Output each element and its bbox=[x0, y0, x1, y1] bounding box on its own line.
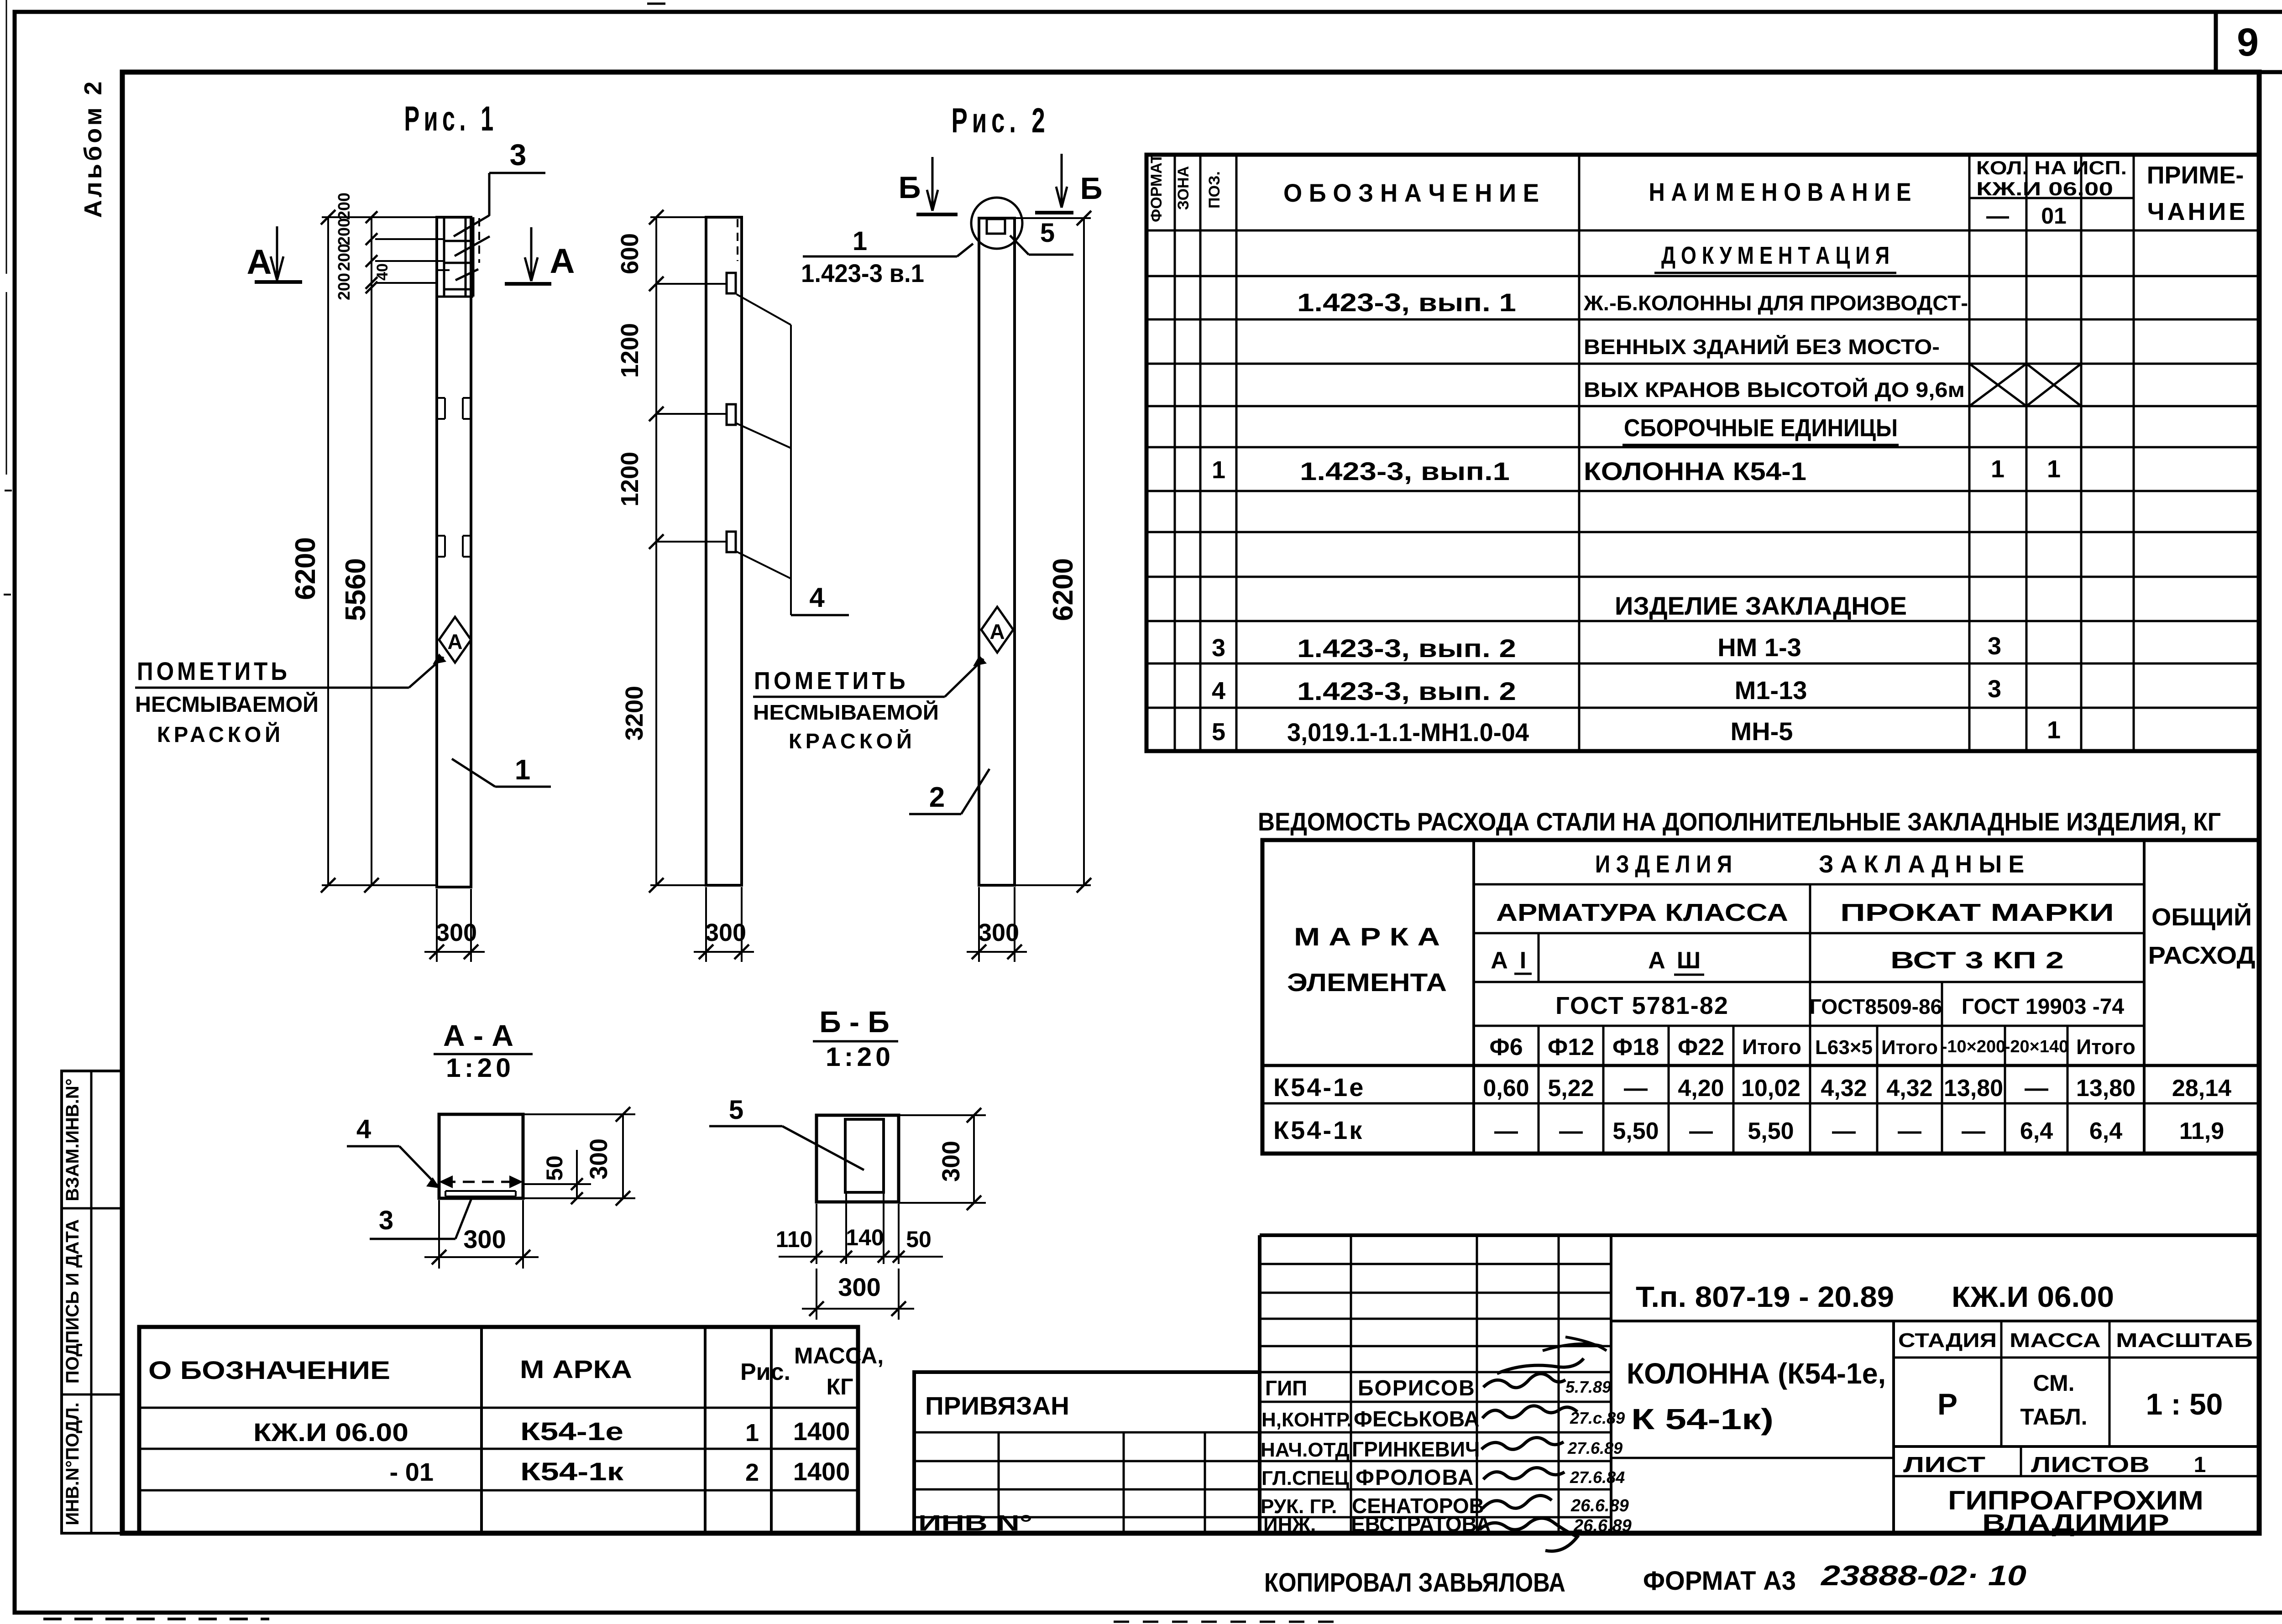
svg-text:5: 5 bbox=[1212, 718, 1225, 746]
svg-text:-20×140: -20×140 bbox=[2005, 1037, 2069, 1056]
spec crosses bbox=[1969, 364, 2026, 406]
recess marks upper bbox=[438, 397, 445, 399]
dim 6200 fig2 bbox=[1015, 217, 1091, 219]
svg-text:300: 300 bbox=[463, 1225, 506, 1253]
A-A dim 300 right bbox=[523, 1113, 635, 1115]
svg-text:1: 1 bbox=[515, 754, 530, 786]
svg-text:27.6.89: 27.6.89 bbox=[1567, 1439, 1623, 1457]
svg-text:М1-13: М1-13 bbox=[1735, 676, 1807, 705]
column K54-1k left body bbox=[706, 217, 742, 885]
svg-text:ВЕННЫХ ЗДАНИЙ БЕЗ МОСТО-: ВЕННЫХ ЗДАНИЙ БЕЗ МОСТО- bbox=[1584, 335, 1940, 359]
leader item 1 bbox=[452, 759, 495, 787]
svg-text:Б: Б bbox=[1080, 171, 1103, 206]
svg-text:Ф6: Ф6 bbox=[1489, 1034, 1523, 1060]
grade mark diamond fig1 bbox=[439, 617, 471, 663]
svg-text:М АРКА: М АРКА bbox=[520, 1355, 632, 1384]
svg-text:300: 300 bbox=[978, 919, 1019, 946]
dim chain fig2 left bbox=[650, 216, 706, 218]
svg-text:КОПИРОВАЛ ЗАВЬЯЛОВА: КОПИРОВАЛ ЗАВЬЯЛОВА bbox=[1264, 1568, 1565, 1598]
svg-text:ИНВ N°: ИНВ N° bbox=[918, 1511, 1032, 1535]
privyazan header bottom bbox=[914, 1431, 1260, 1434]
column K54-1k right body bbox=[979, 218, 1015, 885]
svg-text:Итого: Итого bbox=[1742, 1035, 1801, 1059]
embedded plates on column2 bbox=[727, 273, 736, 293]
svg-text:О Б О З Н А Ч Е Н И Е: О Б О З Н А Ч Е Н И Е bbox=[1283, 178, 1539, 207]
svg-text:6200: 6200 bbox=[290, 537, 321, 600]
steel header rows bbox=[1474, 883, 2144, 886]
svg-text:ЕВСТРАТОВА: ЕВСТРАТОВА bbox=[1351, 1512, 1491, 1536]
svg-text:К54-1е: К54-1е bbox=[520, 1417, 623, 1446]
svg-text:3: 3 bbox=[1212, 634, 1225, 662]
svg-text:ФРОЛОВА: ФРОЛОВА bbox=[1356, 1466, 1474, 1490]
svg-text:Н,КОНТР.: Н,КОНТР. bbox=[1261, 1409, 1352, 1431]
svg-text:И З Д Е Л И Я: И З Д Е Л И Я bbox=[1595, 851, 1732, 878]
svg-text:А: А bbox=[247, 243, 272, 282]
svg-text:ЛИСТОВ: ЛИСТОВ bbox=[2031, 1453, 2150, 1477]
strip divider column bbox=[90, 1071, 93, 1533]
svg-text:ГИП: ГИП bbox=[1265, 1376, 1307, 1400]
svg-text:А - А: А - А bbox=[443, 1018, 513, 1052]
svg-text:1400: 1400 bbox=[793, 1417, 850, 1446]
svg-text:1.423-3, вып.1: 1.423-3, вып.1 bbox=[1300, 457, 1510, 486]
svg-text:А: А bbox=[550, 242, 575, 281]
svg-text:6,4: 6,4 bbox=[2020, 1118, 2053, 1144]
A-A dim 300 bottom bbox=[438, 1200, 440, 1269]
svg-text:600: 600 bbox=[616, 233, 644, 274]
svg-text:6,4: 6,4 bbox=[2089, 1118, 2122, 1144]
svg-text:РАСХОД: РАСХОД bbox=[2148, 942, 2256, 969]
svg-text:ОБЩИЙ: ОБЩИЙ bbox=[2151, 903, 2252, 931]
svg-text:23888-02· 10: 23888-02· 10 bbox=[1821, 1560, 2026, 1592]
svg-text:L63×5: L63×5 bbox=[1815, 1036, 1873, 1059]
stadia grid bbox=[1892, 1321, 1895, 1533]
svg-text:—: — bbox=[1559, 1118, 1583, 1144]
svg-text:Рис. 2: Рис. 2 bbox=[952, 101, 1050, 140]
sig block row lines bbox=[1260, 1371, 1611, 1373]
svg-text:Т.п. 807-19 - 20.89: Т.п. 807-19 - 20.89 bbox=[1636, 1280, 1894, 1313]
svg-text:МАСШТАБ: МАСШТАБ bbox=[2116, 1329, 2253, 1352]
svg-text:ПОЗ.: ПОЗ. bbox=[1206, 171, 1223, 209]
svg-text:Д О К У М Е Н Т А Ц И Я: Д О К У М Е Н Т А Ц И Я bbox=[1661, 242, 1889, 269]
detail circle bbox=[971, 198, 1022, 249]
steel col AI split bbox=[1538, 933, 1540, 982]
svg-text:1:20: 1:20 bbox=[826, 1042, 894, 1072]
svg-text:9: 9 bbox=[2237, 21, 2259, 64]
svg-text:Ф18: Ф18 bbox=[1612, 1034, 1659, 1060]
svg-text:1.423-3 в.1: 1.423-3 в.1 bbox=[801, 259, 924, 287]
svg-text:Н А И М Е Н О В А Н И Е: Н А И М Е Н О В А Н И Е bbox=[1649, 178, 1911, 206]
svg-text:КЖ.И 06.00: КЖ.И 06.00 bbox=[1976, 178, 2113, 199]
strip divider 1 bbox=[62, 1207, 122, 1210]
svg-text:Ф12: Ф12 bbox=[1548, 1034, 1594, 1060]
svg-text:6200: 6200 bbox=[1047, 558, 1079, 621]
svg-text:4,32: 4,32 bbox=[1821, 1075, 1867, 1102]
svg-text:27.6.84: 27.6.84 bbox=[1570, 1468, 1625, 1487]
A-A dim 50 bbox=[523, 1183, 591, 1185]
svg-text:КЖ.И 06.00: КЖ.И 06.00 bbox=[253, 1418, 408, 1446]
svg-text:110: 110 bbox=[776, 1227, 813, 1252]
dim 300 fig1 bbox=[436, 889, 438, 962]
svg-text:—: — bbox=[1689, 1118, 1713, 1144]
strip divider 2 bbox=[62, 1394, 122, 1396]
svg-text:300: 300 bbox=[838, 1273, 880, 1301]
bottom table outer border bbox=[139, 1327, 858, 1533]
svg-text:К 54-1к): К 54-1к) bbox=[1631, 1403, 1774, 1436]
scan artifact left edge ticks bbox=[5, 490, 12, 491]
svg-text:1:20: 1:20 bbox=[446, 1053, 514, 1083]
svg-text:3: 3 bbox=[1988, 632, 2001, 660]
svg-text:Ж.-Б.КОЛОННЫ ДЛЯ ПРОИЗВОДСТ-: Ж.-Б.КОЛОННЫ ДЛЯ ПРОИЗВОДСТ- bbox=[1583, 291, 1968, 315]
scan artifact top edge dash bbox=[647, 3, 665, 5]
svg-text:50: 50 bbox=[906, 1227, 932, 1252]
svg-text:АРМАТУРА КЛАССА: АРМАТУРА КЛАССА bbox=[1496, 899, 1788, 926]
privyazan table columns bbox=[998, 1432, 1000, 1533]
dim 300 col2 bbox=[705, 887, 707, 962]
svg-text:А: А bbox=[1491, 947, 1508, 974]
steel col gost splits bbox=[1941, 982, 1943, 1154]
svg-text:300: 300 bbox=[705, 919, 746, 946]
bracket hatch diagonals bbox=[454, 215, 489, 236]
spec table column lines bbox=[1174, 155, 1176, 751]
svg-text:БОРИСОВ: БОРИСОВ bbox=[1358, 1376, 1476, 1400]
spec table outer border bbox=[1146, 155, 2259, 751]
svg-text:ПОДПИСЬ И ДАТА: ПОДПИСЬ И ДАТА bbox=[63, 1219, 83, 1384]
dim 5560 and 200-chain line bbox=[371, 217, 372, 885]
svg-text:5,22: 5,22 bbox=[1548, 1075, 1594, 1102]
svg-text:ФЕСЬКОВА: ФЕСЬКОВА bbox=[1354, 1407, 1480, 1431]
svg-text:- 01: - 01 bbox=[390, 1457, 434, 1486]
svg-text:КРАСКОЙ: КРАСКОЙ bbox=[157, 722, 284, 747]
svg-text:ПРОКАТ МАРКИ: ПРОКАТ МАРКИ bbox=[1840, 899, 2114, 926]
svg-text:Итого: Итого bbox=[2076, 1035, 2135, 1059]
column K54-1e bracket inner line bbox=[443, 217, 445, 297]
section mark A right bbox=[530, 227, 533, 281]
svg-text:—: — bbox=[1832, 1118, 1856, 1144]
grade mark diamond fig2 bbox=[981, 607, 1013, 653]
svg-text:КРАСКОЙ: КРАСКОЙ bbox=[789, 729, 916, 753]
svg-text:А: А bbox=[1648, 947, 1665, 974]
steel col obshchiy bbox=[2143, 840, 2146, 1154]
svg-text:ФОРМАТ: ФОРМАТ bbox=[1148, 154, 1165, 222]
svg-text:I: I bbox=[1520, 947, 1526, 974]
svg-text:200: 200 bbox=[335, 218, 353, 245]
svg-text:—: — bbox=[1494, 1118, 1518, 1144]
svg-text:300: 300 bbox=[436, 919, 477, 946]
svg-text:200: 200 bbox=[335, 273, 353, 300]
svg-text:2: 2 bbox=[929, 782, 945, 813]
svg-text:26.6.89: 26.6.89 bbox=[1573, 1516, 1632, 1535]
bracket right plate bbox=[465, 217, 467, 297]
svg-text:ГОСТ 19903 -74: ГОСТ 19903 -74 bbox=[1962, 995, 2125, 1019]
svg-text:Ф22: Ф22 bbox=[1678, 1034, 1724, 1060]
svg-text:-10×200: -10×200 bbox=[1942, 1037, 2006, 1056]
svg-text:КОЛОННА К54-1: КОЛОННА К54-1 bbox=[1584, 457, 1806, 486]
svg-text:1200: 1200 bbox=[616, 323, 644, 378]
sig block upper empty rows bbox=[1260, 1263, 1611, 1265]
section A-A square bbox=[439, 1114, 523, 1198]
svg-text:Ш: Ш bbox=[1677, 947, 1701, 974]
svg-text:ПОМЕТИТЬ: ПОМЕТИТЬ bbox=[754, 667, 909, 695]
svg-text:ВЛАДИМИР: ВЛАДИМИР bbox=[1982, 1509, 2169, 1537]
svg-text:Итого: Итого bbox=[1881, 1036, 1938, 1059]
svg-text:26.6.89: 26.6.89 bbox=[1570, 1496, 1629, 1515]
bottom table columns bbox=[480, 1327, 483, 1533]
svg-text:ИНВ.N°ПОДЛ.: ИНВ.N°ПОДЛ. bbox=[63, 1402, 83, 1525]
svg-text:13,80: 13,80 bbox=[2076, 1075, 2135, 1102]
svg-text:5,50: 5,50 bbox=[1612, 1118, 1659, 1144]
svg-text:ЭЛЕМЕНТА: ЭЛЕМЕНТА bbox=[1287, 968, 1447, 997]
svg-text:ГЛ.СПЕЦ: ГЛ.СПЕЦ bbox=[1261, 1467, 1349, 1489]
svg-text:СМ.: СМ. bbox=[2033, 1370, 2075, 1396]
svg-text:1: 1 bbox=[2047, 716, 2061, 744]
svg-text:Р: Р bbox=[1937, 1387, 1957, 1421]
svg-text:ВЕДОМОСТЬ РАСХОДА СТАЛИ НА ДОП: ВЕДОМОСТЬ РАСХОДА СТАЛИ НА ДОПОЛНИТЕЛЬНЫ… bbox=[1258, 807, 2221, 836]
svg-text:300: 300 bbox=[585, 1138, 612, 1180]
svg-text:1: 1 bbox=[2194, 1453, 2206, 1477]
scan artifact bottom dashes bbox=[43, 1618, 269, 1620]
bracket horizontals bbox=[444, 240, 473, 242]
svg-text:НАЧ.ОТД: НАЧ.ОТД bbox=[1261, 1439, 1350, 1461]
svg-text:КГ: КГ bbox=[827, 1374, 853, 1399]
svg-text:—: — bbox=[1962, 1118, 1985, 1144]
svg-text:3,019.1-1.1-МН1.0-04: 3,019.1-1.1-МН1.0-04 bbox=[1287, 718, 1529, 747]
svg-text:1 : 50: 1 : 50 bbox=[2146, 1387, 2223, 1421]
svg-text:ЛИСТ: ЛИСТ bbox=[1903, 1453, 1985, 1477]
svg-text:5,50: 5,50 bbox=[1748, 1118, 1794, 1144]
svg-text:МН-5: МН-5 bbox=[1731, 717, 1793, 746]
A-A dashed plate line bbox=[444, 1181, 518, 1183]
svg-text:МАССА,: МАССА, bbox=[794, 1343, 884, 1368]
svg-text:10,02: 10,02 bbox=[1741, 1075, 1800, 1102]
sheet number box bbox=[2216, 12, 2282, 72]
A-A bottom plate item3 bbox=[445, 1190, 516, 1192]
B-B dim 300 right bbox=[899, 1114, 986, 1116]
svg-text:—: — bbox=[1898, 1118, 1921, 1144]
title rows shared bbox=[914, 1460, 1611, 1462]
svg-text:40: 40 bbox=[374, 263, 391, 281]
B-B dim 300 bottom bbox=[816, 1269, 817, 1320]
svg-text:1400: 1400 bbox=[793, 1457, 850, 1486]
svg-text:—: — bbox=[1624, 1075, 1648, 1102]
svg-text:1.423-3, вып. 2: 1.423-3, вып. 2 bbox=[1297, 634, 1516, 663]
svg-text:З А К Л А Д Н Ы Е: З А К Л А Д Н Ы Е bbox=[1819, 851, 2024, 878]
svg-text:3: 3 bbox=[379, 1206, 393, 1235]
svg-text:ГОСТ 5781-82: ГОСТ 5781-82 bbox=[1555, 992, 1729, 1019]
B-B inner channel bbox=[845, 1119, 884, 1192]
svg-text:КОЛОННА (К54-1е,: КОЛОННА (К54-1е, bbox=[1627, 1357, 1886, 1390]
svg-text:5560: 5560 bbox=[340, 558, 372, 621]
svg-text:Рис.: Рис. bbox=[740, 1359, 790, 1385]
column K54-1e body bbox=[437, 217, 471, 887]
steel table outer border bbox=[1262, 840, 2259, 1154]
svg-text:—: — bbox=[2025, 1075, 2048, 1102]
section mark B right bbox=[1061, 154, 1063, 208]
column2 dashed edge bbox=[737, 219, 738, 261]
svg-text:200: 200 bbox=[335, 193, 353, 220]
bottom table rows bbox=[139, 1407, 858, 1409]
svg-text:300: 300 bbox=[937, 1141, 965, 1182]
signature squiggles bbox=[1483, 1358, 1584, 1388]
svg-text:ФОРМАТ А3: ФОРМАТ А3 bbox=[1643, 1566, 1796, 1596]
svg-text:КОЛ. НА ИСП.: КОЛ. НА ИСП. bbox=[1976, 157, 2127, 178]
svg-text:ИНЖ.: ИНЖ. bbox=[1263, 1514, 1316, 1536]
dim 6200 fig1 bbox=[322, 216, 437, 218]
svg-text:1200: 1200 bbox=[616, 452, 644, 507]
svg-text:ГОСТ8509-86: ГОСТ8509-86 bbox=[1810, 995, 1942, 1018]
svg-text:Альбом 2: Альбом 2 bbox=[79, 78, 107, 218]
name box kolonna bbox=[1611, 1320, 2259, 1322]
spec table row lines bbox=[1146, 230, 2259, 232]
svg-text:4,20: 4,20 bbox=[1678, 1075, 1724, 1102]
svg-text:К54-1е: К54-1е bbox=[1273, 1073, 1365, 1102]
svg-text:ВЗАМ.ИНВ.N°: ВЗАМ.ИНВ.N° bbox=[63, 1078, 83, 1201]
left stamp strip box bbox=[62, 1071, 122, 1533]
svg-text:К54-1к: К54-1к bbox=[520, 1457, 624, 1486]
bracket dashed edge bbox=[478, 218, 480, 263]
title block top border bbox=[1260, 1233, 2259, 1237]
title block left edge bbox=[1258, 1235, 1261, 1533]
svg-text:ГРИНКЕВИЧ: ГРИНКЕВИЧ bbox=[1352, 1437, 1480, 1461]
svg-text:11,9: 11,9 bbox=[2179, 1118, 2224, 1144]
svg-text:МАССА: МАССА bbox=[2010, 1329, 2101, 1352]
svg-text:50: 50 bbox=[542, 1155, 567, 1181]
B-B chain dims bbox=[816, 1204, 817, 1264]
svg-text:КЖ.И 06.00: КЖ.И 06.00 bbox=[1952, 1280, 2114, 1313]
paper edge line bbox=[6, 0, 7, 274]
steel col armatura-prokat split bbox=[1809, 884, 1811, 1154]
svg-text:200: 200 bbox=[335, 244, 353, 271]
svg-text:1.423-3, вып. 1: 1.423-3, вып. 1 bbox=[1297, 288, 1516, 317]
svg-text:5: 5 bbox=[729, 1095, 743, 1125]
svg-text:3: 3 bbox=[1988, 675, 2001, 703]
top plate MN-5 bbox=[987, 219, 1005, 234]
svg-text:1: 1 bbox=[2047, 455, 2061, 483]
svg-text:1: 1 bbox=[1212, 456, 1225, 484]
svg-text:2: 2 bbox=[745, 1459, 759, 1486]
svg-text:К54-1к: К54-1к bbox=[1273, 1116, 1364, 1144]
svg-text:ПОМЕТИТЬ: ПОМЕТИТЬ bbox=[137, 657, 290, 685]
svg-text:ПРИВЯЗАН: ПРИВЯЗАН bbox=[925, 1391, 1069, 1420]
spec table subheader split bbox=[1969, 197, 2134, 199]
svg-text:ТАБЛ.: ТАБЛ. bbox=[2020, 1404, 2087, 1430]
chain extensions bbox=[375, 238, 444, 240]
svg-text:28,14: 28,14 bbox=[2172, 1075, 2231, 1102]
steel diameter columns bbox=[1538, 1026, 1540, 1154]
svg-text:5: 5 bbox=[1040, 218, 1055, 248]
svg-text:А: А bbox=[447, 630, 462, 653]
svg-text:СБОРОЧНЫЕ ЕДИНИЦЫ: СБОРОЧНЫЕ ЕДИНИЦЫ bbox=[1624, 414, 1898, 442]
svg-text:СТАДИЯ: СТАДИЯ bbox=[1898, 1329, 1997, 1352]
svg-text:01: 01 bbox=[2041, 203, 2067, 229]
A-A anchor arrows bbox=[439, 1175, 453, 1188]
svg-text:НЕСМЫВАЕМОЙ: НЕСМЫВАЕМОЙ bbox=[753, 700, 939, 724]
svg-text:ЗОНА: ЗОНА bbox=[1175, 166, 1192, 210]
svg-text:Б - Б: Б - Б bbox=[819, 1005, 890, 1039]
svg-text:ИЗДЕЛИЕ ЗАКЛАДНОЕ: ИЗДЕЛИЕ ЗАКЛАДНОЕ bbox=[1615, 591, 1907, 620]
steel col marka bbox=[1472, 840, 1475, 1154]
leader item 3 top bbox=[488, 173, 491, 216]
svg-text:27.с.89: 27.с.89 bbox=[1570, 1409, 1625, 1427]
section B-B square bbox=[816, 1115, 899, 1202]
plate leaders to label4 bbox=[737, 294, 791, 325]
svg-text:4: 4 bbox=[1212, 677, 1225, 705]
svg-text:ЧАНИЕ: ЧАНИЕ bbox=[2147, 198, 2248, 225]
svg-text:Рис. 1: Рис. 1 bbox=[404, 99, 498, 138]
svg-text:4: 4 bbox=[356, 1114, 371, 1144]
svg-text:1: 1 bbox=[745, 1419, 759, 1446]
svg-text:3200: 3200 bbox=[621, 686, 648, 741]
svg-text:М А Р К А: М А Р К А bbox=[1294, 922, 1440, 951]
svg-text:4: 4 bbox=[809, 582, 825, 613]
sig block columns bbox=[1350, 1235, 1352, 1533]
svg-text:Б: Б bbox=[899, 170, 921, 205]
svg-text:4,32: 4,32 bbox=[1886, 1075, 1932, 1102]
privyazan box bbox=[914, 1372, 1260, 1533]
svg-text:А: А bbox=[989, 620, 1005, 643]
dim 300 col3 bbox=[978, 887, 980, 962]
svg-text:1: 1 bbox=[1991, 455, 2005, 483]
svg-text:3: 3 bbox=[510, 138, 527, 172]
svg-text:0,60: 0,60 bbox=[1483, 1075, 1529, 1102]
svg-text:1: 1 bbox=[853, 226, 867, 256]
svg-text:ПРИМЕ-: ПРИМЕ- bbox=[2147, 162, 2244, 189]
svg-text:НМ 1-3: НМ 1-3 bbox=[1717, 633, 1801, 662]
svg-text:1.423-3, вып. 2: 1.423-3, вып. 2 bbox=[1297, 677, 1516, 705]
svg-text:ВСТ 3 КП 2: ВСТ 3 КП 2 bbox=[1890, 947, 2064, 974]
svg-text:13,80: 13,80 bbox=[1944, 1075, 2003, 1102]
svg-text:О БОЗНАЧЕНИЕ: О БОЗНАЧЕНИЕ bbox=[148, 1356, 390, 1384]
svg-text:ВЫХ КРАНОВ ВЫСОТОЙ ДО 9,6м: ВЫХ КРАНОВ ВЫСОТОЙ ДО 9,6м bbox=[1584, 378, 1965, 402]
svg-text:—: — bbox=[1986, 203, 2009, 229]
svg-text:5.7.89: 5.7.89 bbox=[1565, 1378, 1611, 1396]
svg-text:140: 140 bbox=[846, 1225, 884, 1250]
svg-text:НЕСМЫВАЕМОЙ: НЕСМЫВАЕМОЙ bbox=[135, 692, 319, 717]
